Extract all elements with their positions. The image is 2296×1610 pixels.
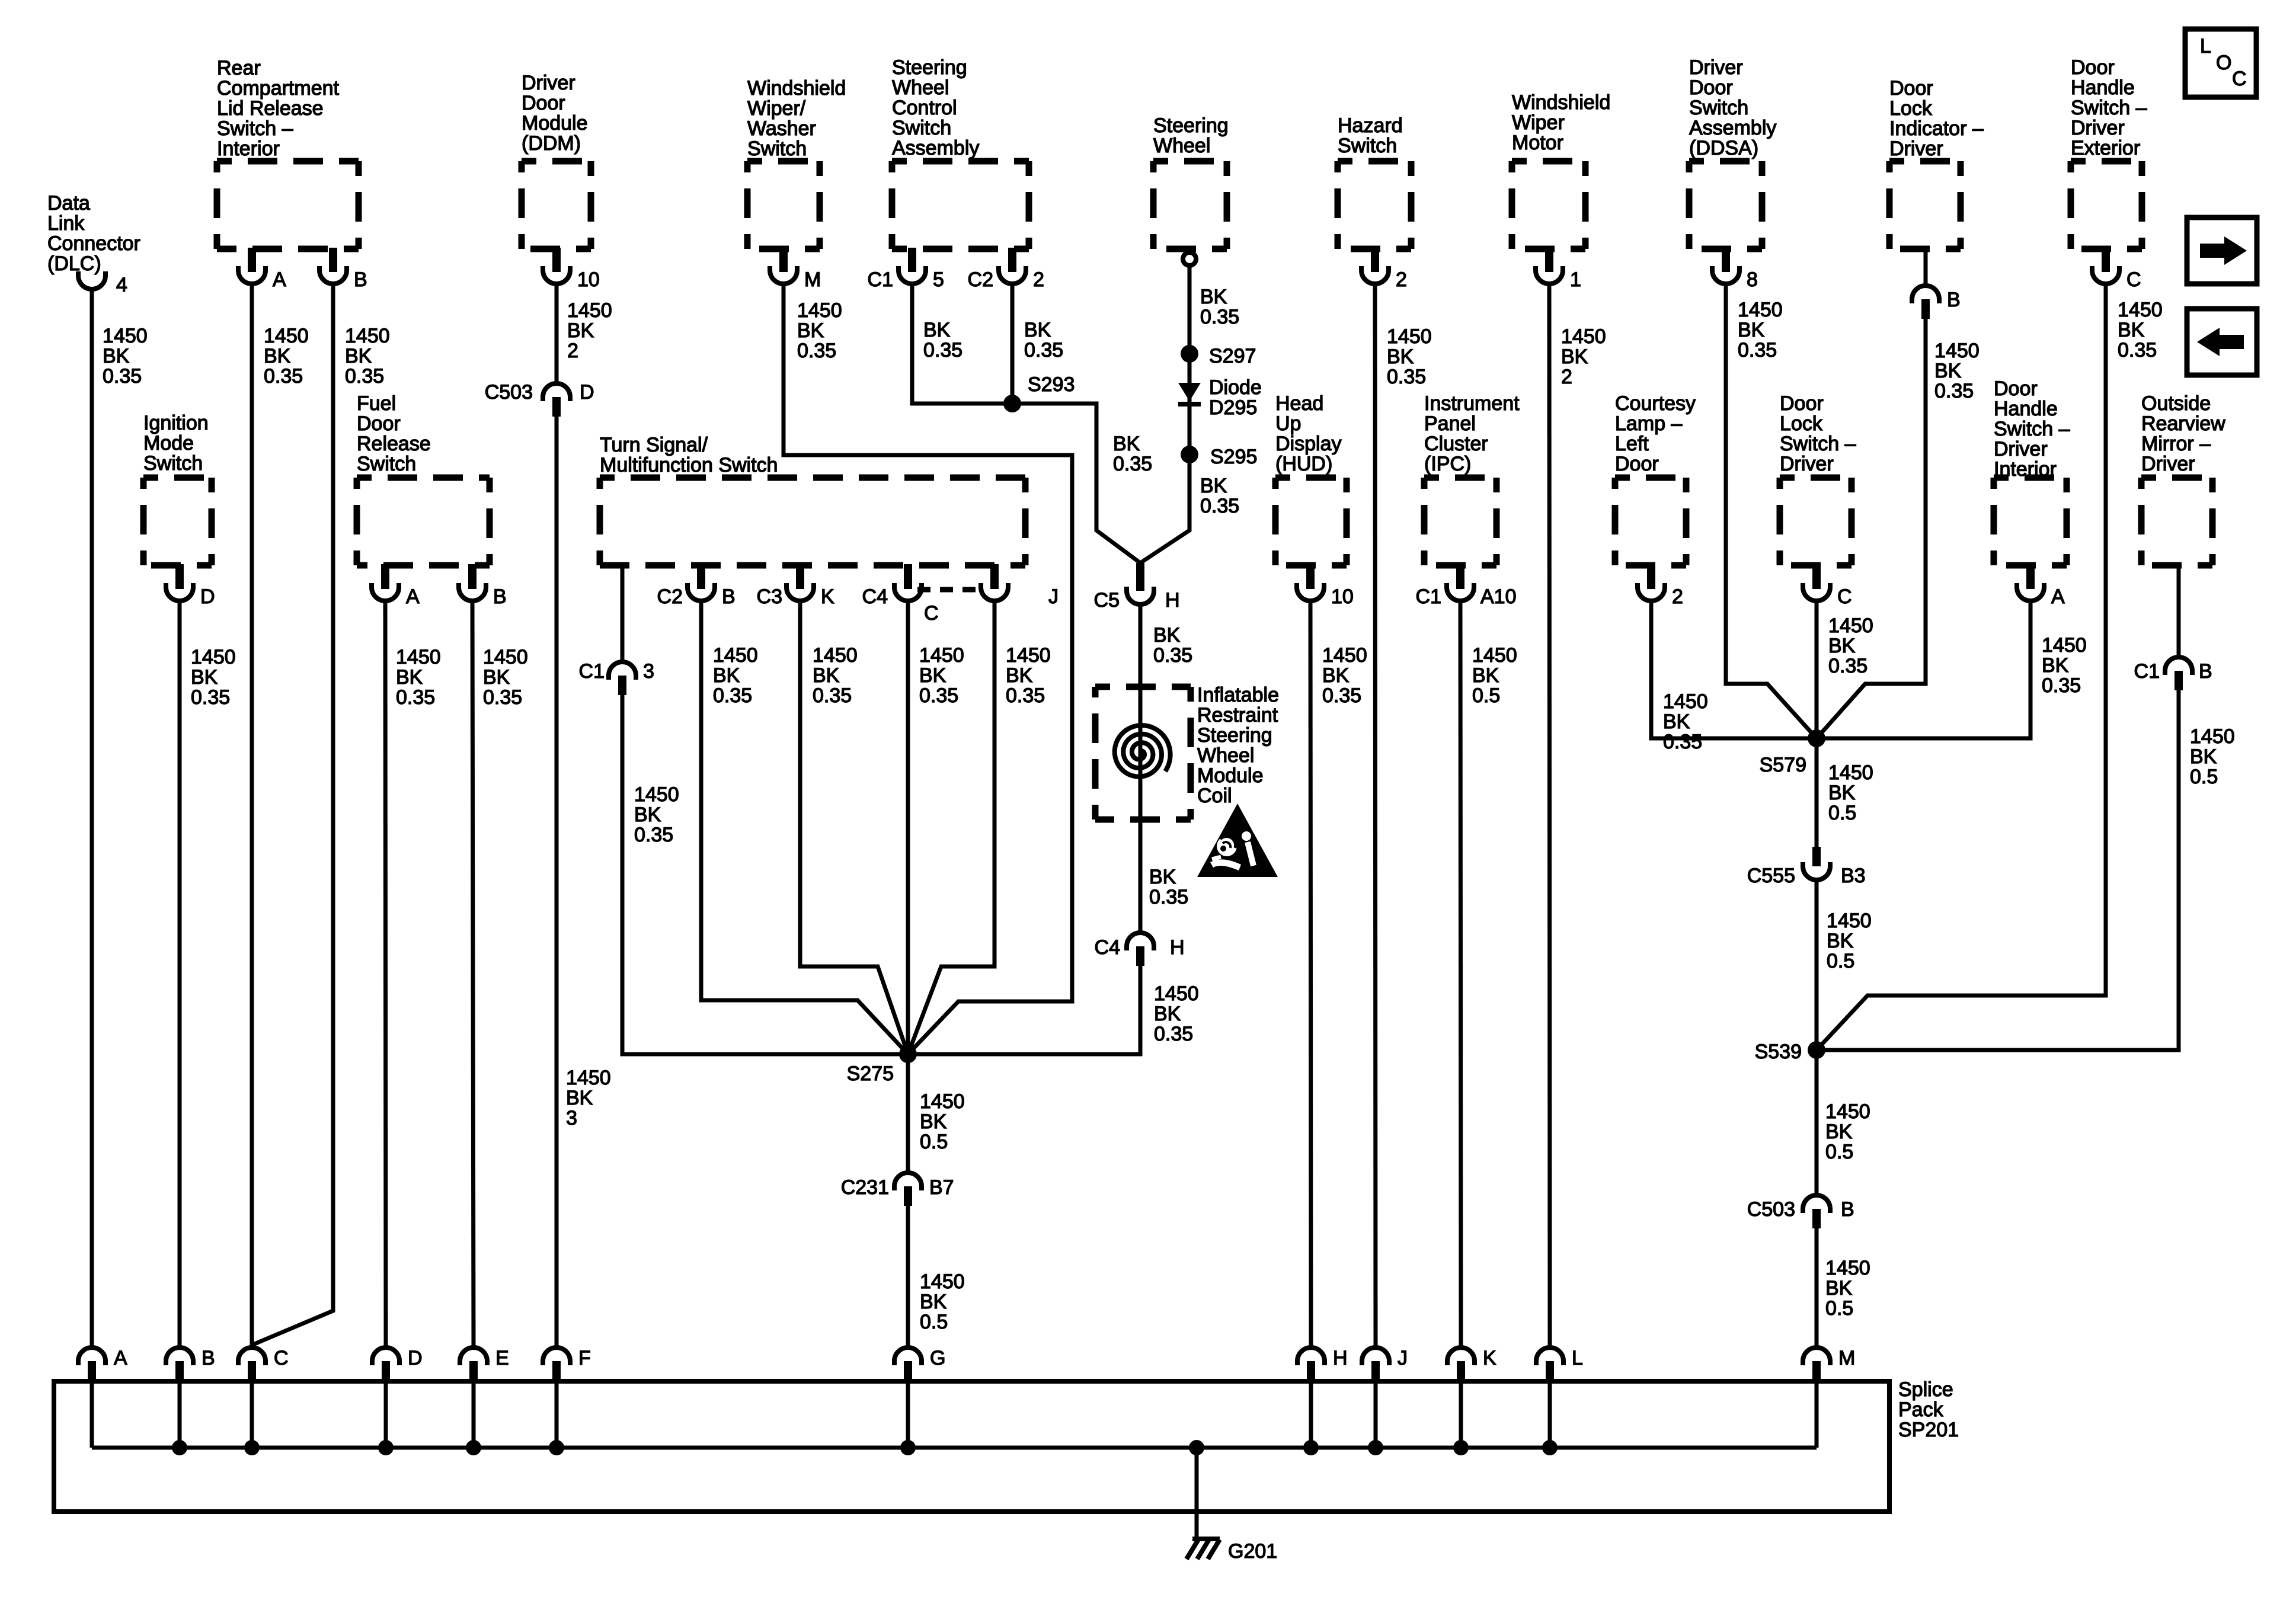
wire: DLC pin 4 to splice pack pin A [90,289,94,1347]
svg-text:1450: 1450 [1827,910,1872,932]
dashed link between C4 and J terminals [917,587,981,593]
svg-text:BK: BK [2190,745,2217,768]
svg-text:0.35: 0.35 [1738,339,1777,361]
terminal B of Rear Compartment Lid Release Switch [319,248,367,291]
wire: Wiper/Washer Switch M to splice S275 [784,284,1072,1054]
svg-text:C2: C2 [968,268,993,291]
splice S295 [1181,446,1198,463]
terminal M of Windshield Wiper/Washer Switch [770,248,821,291]
bus junction at pin K [1453,1440,1469,1455]
svg-text:Lid Release: Lid Release [217,97,324,120]
svg-text:BK: BK [1738,319,1765,341]
svg-text:C503: C503 [1747,1198,1795,1221]
component box: Turn Signal/Multifunction Switch [600,478,1025,565]
splice S539 [1808,1041,1825,1059]
svg-text:0.5: 0.5 [1472,684,1500,707]
terminal J of Turn Signal/Multifunction Switch [981,564,1059,608]
svg-text:Switch: Switch [143,452,203,475]
svg-text:0.35: 0.35 [919,684,958,707]
splice pack SP201 box [54,1381,1889,1512]
svg-text:1450: 1450 [264,325,309,347]
svg-text:1450: 1450 [1828,614,1873,637]
component box: Door Handle Switch - Driver Exterior [2071,161,2142,249]
wire: SWCSA C2-2 to splice S293 [1011,284,1015,404]
terminal C3 K of Turn Signal/Multifunction Switch [757,564,834,608]
splice pack internal bus [92,1446,1817,1450]
terminal 4 of DLC [78,271,127,296]
component box: Hazard Switch [1338,161,1411,249]
svg-text:Switch: Switch [892,117,951,139]
splice pack pin F [543,1347,591,1384]
splice pack pin B [166,1347,215,1384]
wire: Steering Wheel to C5 (right branch of V) [1140,265,1189,563]
svg-text:B: B [493,585,507,608]
svg-text:1450: 1450 [483,646,528,668]
wire: Door Lock Indicator B lead from box [1924,249,1928,286]
svg-text:Turn Signal/: Turn Signal/ [600,434,708,456]
svg-text:C1: C1 [1416,585,1441,608]
svg-text:0.35: 0.35 [813,684,852,707]
svg-text:S275: S275 [847,1062,894,1085]
svg-text:BK: BK [566,1087,593,1109]
svg-text:2: 2 [1672,585,1683,608]
svg-text:BK: BK [920,1291,947,1313]
wire: C231 B7 to splice pack pin G [906,1206,910,1347]
svg-text:C231: C231 [841,1176,889,1199]
svg-text:0.35: 0.35 [103,365,142,388]
splice pack pin K [1447,1347,1496,1384]
splice pack pin E [460,1347,509,1384]
svg-text:C1: C1 [868,268,893,291]
svg-text:H: H [1333,1347,1348,1369]
svg-text:Outside: Outside [2141,392,2211,415]
svg-text:BK: BK [103,345,130,367]
svg-text:Door: Door [1889,77,1933,100]
svg-text:Door: Door [1689,76,1733,99]
wire: pin G internal drop to bus [906,1381,910,1448]
wire: turn signal J to S275 [908,601,994,1054]
svg-text:C503: C503 [485,381,533,404]
component box: Inflatable Restraint Steering Wheel Module Coil [1095,687,1191,820]
terminal A of Door Handle Switch - Driver Interior [2017,564,2065,608]
bus junction at pin B [172,1440,187,1455]
svg-text:2: 2 [567,340,578,362]
svg-text:Assembly: Assembly [892,137,979,159]
splice pack pin J [1362,1347,1408,1384]
wire: pin J internal drop to bus [1374,1381,1378,1448]
svg-text:0.35: 0.35 [345,365,384,388]
svg-text:A: A [273,268,286,291]
wire: S293 to connector C5 (left branch of V) [1012,404,1140,563]
svg-text:Door: Door [1780,392,1824,415]
coil symbol (spiral) of steering wheel module coil [1115,725,1171,777]
svg-text:C555: C555 [1747,865,1795,887]
svg-text:Switch: Switch [747,137,807,160]
wire: S275 to connector C231 [906,1054,910,1173]
svg-text:Steering: Steering [1197,724,1272,747]
svg-text:J: J [1398,1347,1408,1369]
svg-text:1450: 1450 [1825,1257,1870,1279]
right arrow legend box [2187,217,2257,284]
splice pack pin H [1297,1347,1348,1384]
svg-text:BK: BK [1934,360,1962,382]
svg-text:Instrument: Instrument [1424,392,1520,415]
component box: Driver Door Switch Assembly (DDSA) [1689,161,1762,249]
svg-text:1450: 1450 [1006,644,1051,667]
terminal C2 B of Turn Signal/Multifunction Switch [657,564,736,608]
component box: Ignition Mode Switch [143,478,212,565]
in-line connector C555 pin B3 [1747,847,1866,887]
svg-text:Connector: Connector [47,232,140,255]
svg-text:Coil: Coil [1197,785,1232,807]
svg-text:0.35: 0.35 [1024,339,1063,361]
svg-text:1450: 1450 [1561,325,1606,348]
bus junction at pin C [244,1440,260,1455]
splice pack pin G [894,1347,945,1384]
svg-text:0.35: 0.35 [1387,366,1426,388]
component box: Steering Wheel Control Switch Assembly [892,161,1029,249]
svg-text:L: L [2200,35,2211,57]
svg-text:Compartment: Compartment [217,77,340,100]
wire: bus to ground G201 [1195,1448,1199,1538]
svg-text:Driver: Driver [1889,137,1943,160]
svg-text:B3: B3 [1841,865,1866,887]
svg-text:K: K [821,585,834,608]
terminal 2 of Hazard Switch [1361,248,1407,291]
svg-text:C: C [2126,268,2141,291]
wire: through coil to C4 H [1139,735,1143,933]
splice pack pin M [1803,1347,1855,1384]
wire: HUD 10 to splice pack pin H [1310,601,1311,1347]
svg-text:0.5: 0.5 [1828,802,1856,824]
wire: Mirror C1-B to splice S539 [1817,690,2179,1050]
wire: Fuel Door Release A to splice pack pin D [385,601,386,1347]
splice pack pin L [1536,1347,1583,1384]
svg-text:Switch –: Switch – [1994,418,2070,440]
svg-text:1450: 1450 [920,1090,965,1113]
svg-text:B: B [202,1347,215,1369]
terminal C of Door Lock Switch - Driver [1803,564,1852,608]
component box: Door Lock Switch - Driver [1780,478,1851,565]
svg-text:BK: BK [1153,624,1181,646]
svg-text:BK: BK [1825,1277,1853,1299]
wire: Turn Signal Switch internal lead to C1-3 [621,565,625,662]
SRS airbag warning triangle icon [1197,804,1278,877]
terminal 1 of Windshield Wiper Motor [1536,248,1581,291]
wire: Outside Rearview Mirror lead from box [2177,565,2181,657]
svg-text:BK: BK [1663,710,1690,733]
svg-text:Assembly: Assembly [1689,117,1776,139]
splice pack pin C [238,1347,289,1384]
svg-text:1450: 1450 [345,325,390,347]
svg-text:Lock: Lock [1780,412,1823,435]
svg-text:F: F [578,1347,591,1369]
component box: Windshield Wiper/Washer Switch [747,161,820,249]
svg-text:C1: C1 [2134,660,2160,683]
svg-text:Switch –: Switch – [2071,97,2147,119]
component box: Rear Compartment Lid Release Switch - Interior [217,161,359,249]
terminal D of Ignition Mode Switch [166,564,215,608]
svg-text:Diode: Diode [1209,376,1262,399]
wire: S579 to connector C555 [1815,738,1819,847]
svg-text:BK: BK [813,664,840,687]
svg-text:B: B [2199,660,2212,683]
svg-text:0.5: 0.5 [1825,1297,1853,1320]
svg-text:1450: 1450 [396,646,441,668]
wire: pin B internal drop to bus [178,1381,182,1448]
svg-text:1450: 1450 [1828,761,1873,784]
svg-text:2: 2 [1033,268,1044,291]
svg-text:BK: BK [396,666,423,689]
svg-text:1450: 1450 [2042,634,2087,657]
svg-text:Indicator –: Indicator – [1889,117,1984,140]
terminal of Steering Wheel (ring) [1183,252,1196,265]
svg-text:Cluster: Cluster [1424,433,1488,455]
svg-text:0.35: 0.35 [2118,339,2157,361]
svg-text:Mirror –: Mirror – [2141,433,2211,455]
svg-text:0.35: 0.35 [1322,684,1361,707]
wire: C555 B3 to splice S539 [1815,880,1819,1050]
svg-text:BK: BK [1200,286,1227,308]
svg-text:Motor: Motor [1512,132,1563,154]
svg-text:Pack: Pack [1898,1398,1944,1421]
terminal 8 of Driver Door Switch Assembly [1712,248,1758,291]
svg-text:Rearview: Rearview [2141,412,2225,435]
svg-text:Display: Display [1275,433,1341,455]
svg-text:1450: 1450 [1472,644,1517,667]
svg-text:Splice: Splice [1898,1378,1953,1401]
svg-text:Driver: Driver [1689,56,1743,79]
wire: Door Handle Exterior C to splice S539 [1817,284,2106,1050]
svg-text:Interior: Interior [217,137,280,160]
wire: C503 B to splice pack pin M [1815,1228,1819,1347]
svg-text:1450: 1450 [1154,982,1199,1005]
svg-text:BK: BK [1322,664,1350,687]
svg-text:BK: BK [919,664,946,687]
svg-text:0.35: 0.35 [797,340,836,362]
svg-text:BK: BK [634,804,661,826]
terminal C1 A10 of Instrument Panel Cluster [1416,564,1517,608]
svg-text:BK: BK [713,664,740,687]
svg-text:0.35: 0.35 [264,365,303,388]
svg-text:S295: S295 [1210,446,1257,468]
svg-text:0.35: 0.35 [1149,886,1188,908]
splice S579 [1808,729,1825,747]
svg-text:BK: BK [191,666,218,689]
svg-text:Panel: Panel [1424,412,1476,435]
svg-text:Steering: Steering [1153,114,1229,137]
svg-text:Control: Control [892,97,957,119]
wire: Door Lock Indicator B to splice S579 [1817,319,1926,738]
svg-text:1450: 1450 [566,1067,611,1089]
svg-text:Courtesy: Courtesy [1615,392,1696,415]
svg-text:D: D [200,585,215,608]
svg-text:Release: Release [357,433,431,455]
svg-text:Door: Door [2071,56,2115,79]
svg-text:Handle: Handle [1994,398,2058,420]
svg-text:1450: 1450 [1322,644,1367,667]
wire: IPC A10 to splice pack pin K [1460,601,1461,1347]
svg-text:0.5: 0.5 [920,1131,948,1153]
svg-text:Windshield: Windshield [747,77,846,100]
terminal 10 of Head Up Display [1297,564,1354,608]
svg-text:BK: BK [1113,433,1140,455]
wire: Rear Compartment A to splice pack pin C [250,284,254,1347]
svg-text:BK: BK [1828,782,1856,804]
svg-text:1450: 1450 [1738,299,1783,321]
in-line connector C4 pin H [1095,933,1185,966]
svg-text:Multifunction Switch: Multifunction Switch [600,454,778,476]
svg-text:1450: 1450 [634,783,679,806]
svg-text:1450: 1450 [797,299,842,322]
svg-text:BK: BK [483,666,510,689]
component box: Door Handle Switch - Driver Interior [1994,478,2067,565]
svg-text:0.35: 0.35 [2042,674,2081,697]
svg-text:Windshield: Windshield [1512,91,1610,114]
svg-text:Driver: Driver [1994,438,2048,460]
terminal C2 2 of Steering Wheel Control Switch Assembly [968,248,1044,291]
svg-text:BK: BK [2042,654,2069,677]
svg-text:1450: 1450 [1934,340,1980,362]
in-line connector C1 pin 3 [579,660,654,695]
bus junction at pin F [549,1440,564,1455]
svg-text:0.5: 0.5 [1825,1141,1853,1163]
bus junction at pin G [900,1440,916,1455]
in-line connector C503 pin D [485,381,594,417]
in-line connector C503 pin B [1747,1195,1854,1228]
component box: Outside Rearview Mirror - Driver [2141,478,2212,565]
svg-text:Driver: Driver [2141,453,2195,475]
svg-text:1450: 1450 [103,325,148,347]
svg-text:Switch –: Switch – [1780,433,1856,455]
svg-text:A10: A10 [1480,585,1517,608]
svg-text:BK: BK [1561,345,1588,368]
svg-text:3: 3 [566,1107,577,1129]
svg-text:0.5: 0.5 [1827,950,1854,972]
svg-text:(DLC): (DLC) [47,252,101,275]
wire: Courtesy Lamp 2 to splice S579 [1651,601,1817,738]
svg-text:BK: BK [797,319,824,342]
svg-text:S539: S539 [1755,1041,1802,1063]
svg-text:Switch: Switch [1338,135,1397,157]
wire: pin D internal drop to bus [384,1381,388,1448]
wire: C4 H down to S275 horizontal run [908,966,1140,1054]
svg-text:1450: 1450 [813,644,858,667]
svg-text:Data: Data [47,192,90,215]
terminal C of Door Handle Switch - Driver Exterior [2092,248,2141,291]
wire: C5 H to coil [1139,604,1143,735]
in-line connector C5 pin H [1094,563,1180,612]
svg-text:S297: S297 [1209,345,1256,367]
svg-text:H: H [1165,589,1180,612]
svg-text:BK: BK [1154,1003,1181,1025]
in-line connector C231 pin B7 [841,1173,954,1206]
svg-text:B: B [1841,1198,1854,1221]
svg-text:Head: Head [1275,392,1323,415]
bus junction at pin E [466,1440,481,1455]
wire: Fuel Door Release B to splice pack pin E [472,601,474,1347]
svg-text:BK: BK [264,345,291,367]
wire: pin H internal drop to bus [1309,1381,1313,1448]
svg-text:0.35: 0.35 [396,686,435,709]
svg-text:C2: C2 [657,585,683,608]
svg-text:C1: C1 [579,660,605,683]
svg-text:C4: C4 [862,585,888,608]
wire: Ignition Mode Switch D to splice pack pin B [178,601,182,1347]
svg-text:Switch: Switch [1689,97,1748,119]
wire: Door Handle Interior A to splice S579 [1817,601,2030,738]
svg-text:Door: Door [357,412,401,435]
svg-text:C: C [1837,585,1852,608]
wire: pin L internal drop to bus [1548,1381,1552,1448]
svg-text:0.35: 0.35 [1006,684,1045,707]
wire: Wiper Motor 1 to splice pack pin L [1549,284,1550,1347]
svg-text:8: 8 [1747,268,1758,291]
wire: S539 to connector C503 B [1815,1050,1819,1195]
splice S297 [1181,345,1198,363]
svg-text:1450: 1450 [567,299,612,322]
svg-text:S293: S293 [1028,373,1075,396]
svg-text:Switch –: Switch – [217,117,293,140]
svg-text:BK: BK [1828,635,1856,657]
svg-text:Driver: Driver [1780,453,1834,475]
svg-text:BK: BK [567,319,594,342]
terminal 10 of Driver Door Module [543,248,600,291]
svg-text:Wiper/: Wiper/ [747,97,806,120]
svg-text:G201: G201 [1228,1540,1277,1563]
svg-text:(DDSA): (DDSA) [1689,137,1758,159]
svg-text:5: 5 [933,268,944,291]
svg-text:1450: 1450 [191,646,236,668]
in-line connector C1 pin B of Outside Rearview Mirror [2134,657,2212,690]
svg-text:BK: BK [1387,345,1414,368]
splice pack pin A [78,1347,127,1384]
component box: Steering Wheel [1153,161,1227,249]
wire: pin A internal drop to bus [90,1381,94,1448]
component box: Driver Door Module (DDM) [522,161,591,249]
svg-text:Driver: Driver [522,72,575,94]
svg-text:G: G [930,1347,945,1369]
svg-text:Module: Module [1197,764,1264,787]
svg-text:Interior: Interior [1994,458,2057,481]
svg-text:BK: BK [1827,930,1854,952]
svg-text:10: 10 [1331,585,1354,608]
wire: pin K internal drop to bus [1459,1381,1463,1448]
bus junction at pin H [1303,1440,1319,1455]
svg-text:Driver: Driver [2071,117,2125,139]
svg-text:Door: Door [1994,377,2038,400]
svg-text:Wheel: Wheel [892,76,949,99]
svg-text:Inflatable: Inflatable [1197,684,1279,706]
component box: Courtesy Lamp - Left Door [1615,478,1686,565]
svg-text:4: 4 [116,274,127,296]
svg-text:Wheel: Wheel [1153,135,1210,157]
svg-text:1450: 1450 [1387,325,1432,348]
svg-text:J: J [1048,585,1059,608]
wire: Rear Compartment B joining pin C wire [253,284,333,1345]
svg-text:0.35: 0.35 [1113,453,1152,475]
svg-text:Door: Door [1615,453,1659,475]
terminal 2 of Courtesy Lamp - Left Door [1638,564,1683,608]
terminal A of Fuel Door Release Switch [372,564,420,608]
wire: DDM pin 10 to connector C503 D [555,284,559,383]
svg-text:0.5: 0.5 [2190,766,2218,788]
svg-text:C5: C5 [1094,589,1120,612]
svg-text:0.35: 0.35 [191,686,230,709]
svg-text:BK: BK [1024,319,1051,341]
svg-text:E: E [495,1347,509,1369]
splice S275 [899,1045,917,1063]
